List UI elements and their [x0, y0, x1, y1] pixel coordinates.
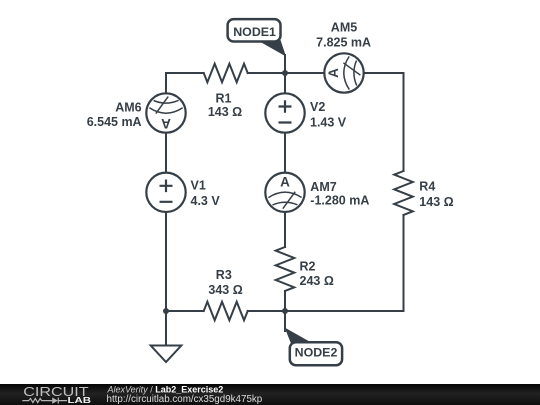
svg-text:143 Ω: 143 Ω [419, 195, 453, 209]
svg-text:NODE2: NODE2 [295, 346, 338, 360]
svg-text:A: A [326, 68, 341, 78]
svg-text:V2: V2 [310, 100, 325, 114]
svg-text:A: A [161, 116, 171, 131]
svg-text:LAB: LAB [68, 395, 92, 405]
svg-text:R3: R3 [216, 268, 232, 282]
svg-text:6.545 mA: 6.545 mA [87, 115, 142, 129]
svg-text:343 Ω: 343 Ω [208, 283, 242, 297]
svg-text:-1.280 mA: -1.280 mA [310, 193, 369, 207]
svg-text:243 Ω: 243 Ω [300, 274, 334, 288]
svg-text:4.3 V: 4.3 V [191, 194, 221, 208]
svg-text:A: A [280, 174, 290, 189]
svg-text:V1: V1 [191, 179, 206, 193]
svg-text:R2: R2 [300, 260, 316, 274]
svg-text:AM5: AM5 [331, 21, 357, 35]
svg-text:R1: R1 [216, 91, 232, 105]
svg-text:7.825 mA: 7.825 mA [316, 36, 371, 50]
svg-text:143 Ω: 143 Ω [208, 105, 242, 119]
svg-text:R4: R4 [419, 180, 435, 194]
svg-text:NODE1: NODE1 [233, 25, 276, 39]
svg-text:1.43 V: 1.43 V [310, 116, 347, 130]
svg-text:http://circuitlab.com/cx35gd9k: http://circuitlab.com/cx35gd9k475kp [107, 394, 263, 405]
svg-text:AM6: AM6 [115, 101, 141, 115]
svg-text:AM7: AM7 [310, 180, 336, 194]
